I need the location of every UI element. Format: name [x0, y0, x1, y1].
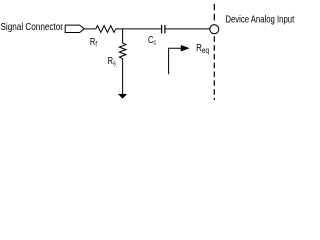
node junction to shunt branch — [122, 29, 124, 43]
svg-text:Signal Connector: Signal Connector — [1, 21, 63, 32]
ground (arrow symbol) — [118, 94, 126, 98]
Req arrow (looking into device) — [169, 48, 182, 74]
svg-text:Device Analog Input: Device Analog Input — [225, 14, 294, 25]
terminal circle (device analog input pin) — [210, 25, 219, 34]
device boundary dashed line (lower) — [213, 36, 215, 100]
wire resistor Rf to capacitor Cc — [116, 28, 161, 30]
connector J1 (signal connector symbol) — [65, 25, 84, 32]
resistor Rs (shunt) — [119, 43, 126, 59]
svg-text:Req: Req — [196, 42, 209, 55]
wire capacitor Cc to device input terminal — [165, 28, 210, 30]
capacitor Cc plates — [161, 25, 163, 33]
resistor Rf (series) — [96, 26, 116, 33]
device boundary dashed line (upper) — [213, 4, 215, 21]
wire resistor Rs to ground — [122, 59, 124, 95]
wire connector to resistor Rf — [84, 28, 96, 30]
